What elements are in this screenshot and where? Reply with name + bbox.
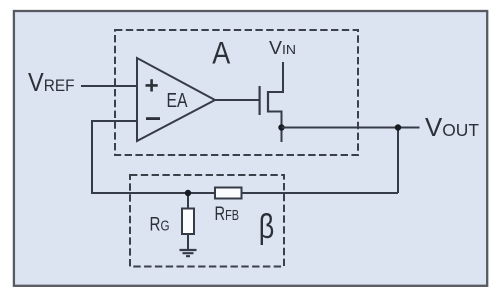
wire feedback left vertical	[91, 120, 93, 193]
wire output horizontal to VOUT	[282, 127, 420, 129]
ground	[180, 250, 197, 256]
node source-output junction dot	[278, 124, 284, 130]
transistor Q1 source wire with stub	[267, 112, 282, 143]
resistor RG	[182, 209, 194, 235]
svg-text:A: A	[212, 35, 230, 71]
wire VOUT right vertical	[397, 128, 399, 194]
op-amp minus input sign	[146, 117, 160, 120]
svg-text:β: β	[259, 208, 275, 246]
wire VREF to op-amp + input	[81, 85, 137, 87]
node VOUT feedback junction dot	[395, 124, 401, 130]
op-amp plus input sign	[146, 79, 158, 91]
resistor RFB	[215, 188, 242, 199]
wire feedback bottom horizontal	[91, 192, 398, 194]
block A dashed box	[115, 30, 358, 155]
node feedback divider junction dot	[185, 190, 191, 196]
svg-text:RG: RG	[150, 214, 170, 236]
wire node to RG	[187, 193, 189, 250]
block beta dashed box	[130, 175, 284, 267]
transistor Q1 channel bar	[267, 91, 269, 113]
transistor Q1 drain wire to VIN	[267, 62, 283, 92]
op-amp U1 EA triangle	[137, 58, 215, 141]
wire op-amp output to gate	[215, 99, 259, 101]
transistor Q1 gate bar	[259, 86, 261, 115]
wire op-amp - input	[92, 120, 137, 122]
svg-text:EA: EA	[167, 90, 189, 112]
